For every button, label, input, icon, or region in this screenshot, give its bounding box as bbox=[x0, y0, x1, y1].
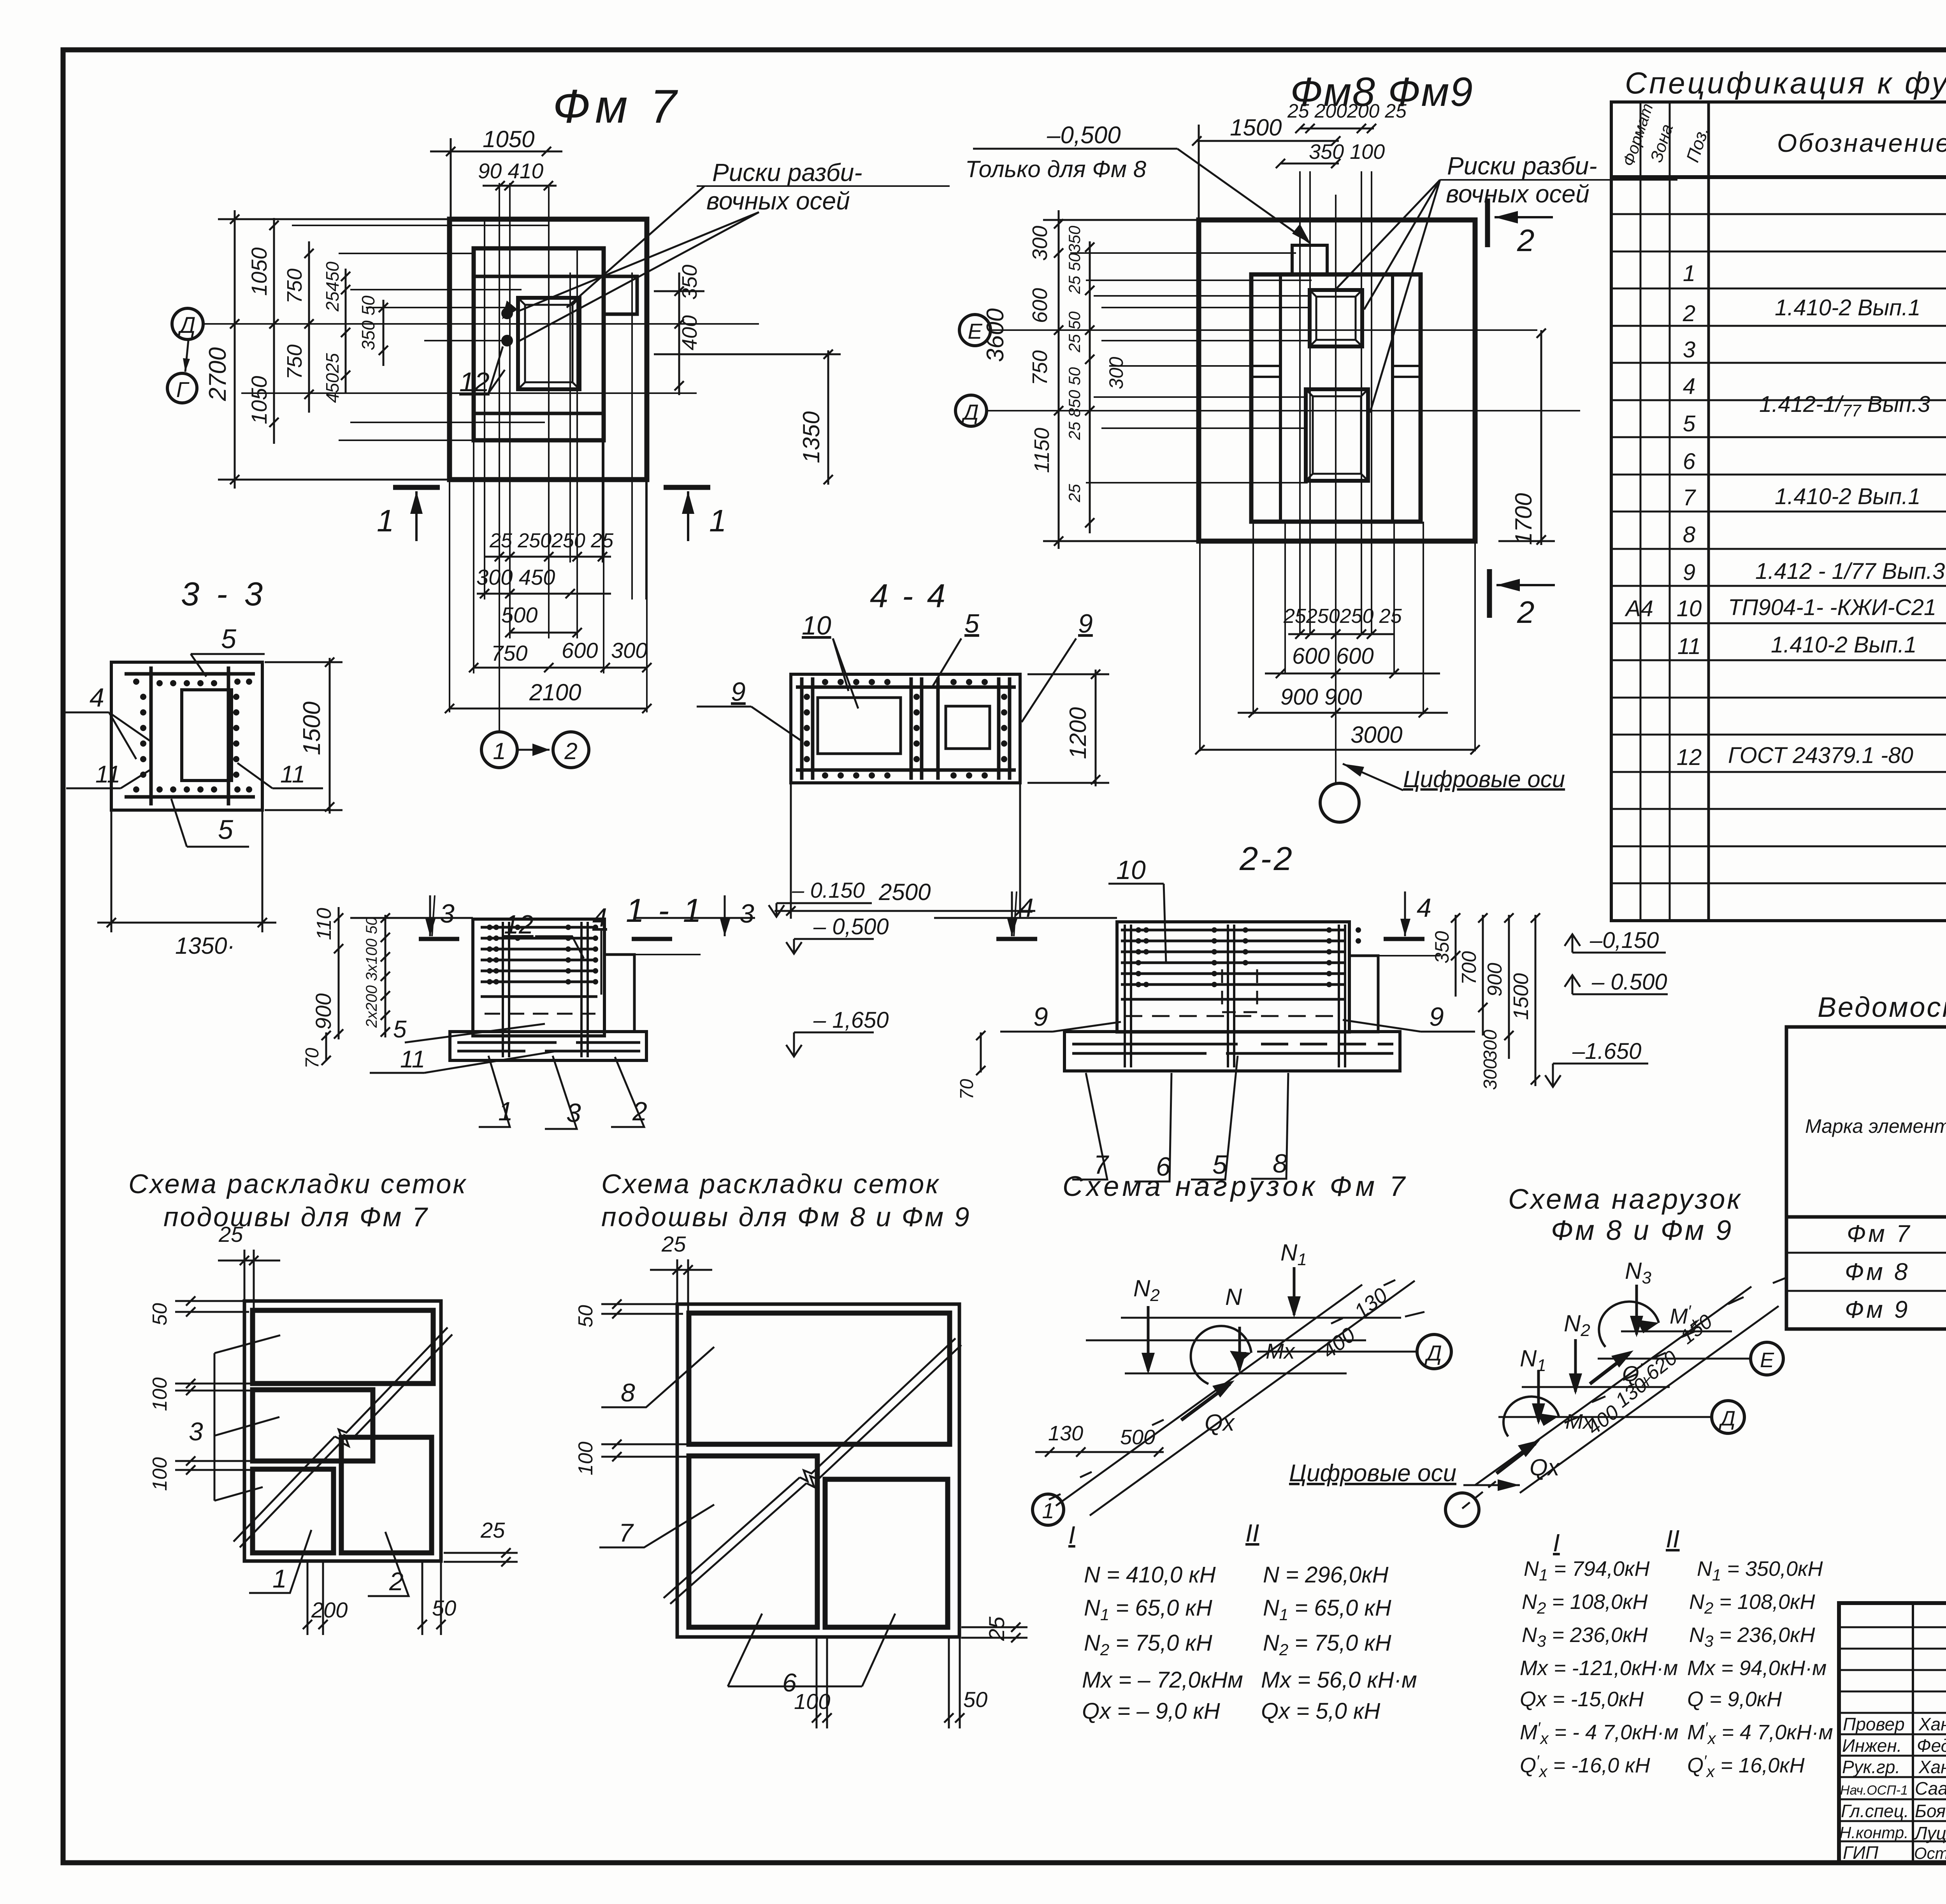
svg-text:Д: Д bbox=[1424, 1341, 1442, 1365]
svg-text:70: 70 bbox=[957, 1079, 977, 1100]
Fm7 axis D line bbox=[202, 323, 759, 325]
svg-text:Д: Д bbox=[1719, 1407, 1735, 1430]
svg-text:Луценко: Луценко bbox=[1914, 1823, 1946, 1843]
svg-text:–0,500: –0,500 bbox=[1047, 122, 1121, 149]
svg-text:Н.контр.: Н.контр. bbox=[1839, 1823, 1909, 1842]
svg-text:11: 11 bbox=[1677, 634, 1701, 659]
svg-text:4: 4 bbox=[1417, 893, 1431, 923]
horizontal girder lines bbox=[1121, 1317, 1401, 1319]
svg-text:4: 4 bbox=[90, 683, 104, 712]
svg-text:12: 12 bbox=[459, 367, 490, 397]
steel table header texts bbox=[1805, 1034, 1946, 1210]
mesh C6 bottom-right bbox=[825, 1479, 948, 1627]
axis circle D bbox=[172, 308, 203, 339]
svg-text:1: 1 bbox=[377, 503, 394, 538]
svg-text:500: 500 bbox=[501, 603, 537, 627]
svg-text:подошвы для Фм 7: подошвы для Фм 7 bbox=[163, 1202, 429, 1232]
svg-text:2: 2 bbox=[389, 1567, 404, 1596]
svg-text:Mх = -121,0кН·м: Mх = -121,0кН·м bbox=[1520, 1656, 1678, 1680]
section 2-2 horizontal mesh rows bbox=[1121, 929, 1346, 932]
svg-text:11: 11 bbox=[95, 761, 120, 788]
svg-text:2: 2 bbox=[1517, 223, 1535, 258]
svg-text:2-2: 2-2 bbox=[1239, 840, 1294, 877]
svg-text:Схема раскладки сеток: Схема раскладки сеток bbox=[128, 1169, 467, 1199]
svg-text:Обозначение: Обозначение bbox=[1777, 128, 1946, 157]
svg-text:300 450: 300 450 bbox=[476, 565, 555, 589]
beam diagonal axis lines bbox=[1056, 1285, 1362, 1506]
section 2-2 right dimension chain bbox=[1451, 913, 1540, 1086]
section 4-4 concrete outline bbox=[791, 674, 1020, 783]
svg-text:3: 3 bbox=[189, 1417, 203, 1446]
axis circle E bbox=[959, 315, 991, 346]
svg-text:Спецификация к фундаментам: Спецификация к фундаментам Фм7- Фм9 bbox=[1625, 66, 1946, 100]
section 3-3 dimension 1500 bbox=[265, 658, 342, 814]
svg-text:25 50: 25 50 bbox=[1065, 311, 1084, 353]
svg-text:Цифровые оси: Цифровые оси bbox=[1403, 766, 1565, 792]
svg-text:350: 350 bbox=[1431, 931, 1453, 963]
axis circle D (Fm89) bbox=[955, 395, 987, 426]
svg-text:2700: 2700 bbox=[204, 347, 231, 401]
svg-text:1: 1 bbox=[1042, 1498, 1054, 1523]
svg-text:Q = 9,0кН: Q = 9,0кН bbox=[1687, 1688, 1782, 1711]
Fm89 axis E line bbox=[991, 329, 1537, 331]
section 3-3 inner opening bbox=[182, 690, 232, 781]
Fm7 anchor box inner bbox=[525, 305, 573, 382]
svg-text:45025: 45025 bbox=[322, 353, 342, 403]
Fm89 bottom anchor box bbox=[1306, 389, 1368, 481]
svg-text:– 1,650: – 1,650 bbox=[813, 1007, 889, 1033]
svg-text:5: 5 bbox=[964, 609, 979, 638]
svg-text:Рук.гр.: Рук.гр. bbox=[1842, 1757, 1900, 1777]
svg-text:700: 700 bbox=[1458, 951, 1481, 985]
Fm89 top notch (step for -0.500) bbox=[1292, 245, 1327, 274]
section 4-4 rebar dots bbox=[804, 679, 1007, 779]
specification body rows bbox=[1625, 185, 1946, 918]
Fm89 outer foundation outline bbox=[1199, 220, 1475, 541]
specification header texts bbox=[1619, 101, 1946, 176]
section 4-4 opening right bbox=[946, 706, 990, 749]
section 2-2 dashed insert box bbox=[1222, 969, 1257, 1012]
svg-text:1: 1 bbox=[272, 1564, 287, 1593]
svg-text:N = 410,0 кН: N = 410,0 кН bbox=[1084, 1562, 1216, 1588]
svg-text:–0,150: –0,150 bbox=[1589, 928, 1659, 953]
mesh layout Fm7 footing outline bbox=[244, 1301, 441, 1561]
axis circle E (load scheme) bbox=[1751, 1342, 1783, 1375]
svg-text:100: 100 bbox=[149, 1377, 171, 1411]
Fm7 lower center line bbox=[241, 392, 697, 394]
svg-text:10: 10 bbox=[1677, 596, 1702, 621]
svg-text:100: 100 bbox=[794, 1689, 830, 1714]
svg-text:300: 300 bbox=[1480, 1059, 1501, 1090]
svg-text:Гл.спец.: Гл.спец. bbox=[1841, 1801, 1909, 1821]
section 2-2 footing mesh bars bbox=[1072, 1043, 1238, 1046]
load scheme Fm7 axis sketch bbox=[1049, 1280, 1424, 1515]
svg-text:1150: 1150 bbox=[1030, 428, 1054, 473]
svg-text:1200: 1200 bbox=[1065, 707, 1091, 759]
svg-text:1.412 - 1/77 Вып.3: 1.412 - 1/77 Вып.3 bbox=[1755, 559, 1945, 584]
svg-text:750: 750 bbox=[1028, 350, 1052, 385]
Fm89 left dimension chain 3600 bbox=[1043, 210, 1201, 549]
mesh C8 top bbox=[689, 1313, 950, 1444]
svg-text:Фм 8 и Фм 9: Фм 8 и Фм 9 bbox=[1551, 1215, 1733, 1246]
Fm89 pedestal internal column strips bbox=[1279, 274, 1282, 522]
axis circle 1 bottom bbox=[481, 732, 517, 768]
svg-text:Риски разби-: Риски разби- bbox=[1447, 152, 1597, 180]
svg-text:7: 7 bbox=[1683, 485, 1697, 510]
svg-text:Qх = -15,0кН: Qх = -15,0кН bbox=[1520, 1688, 1644, 1711]
svg-text:9: 9 bbox=[1078, 609, 1093, 638]
axis circle bottom (Fm89) bbox=[1320, 783, 1359, 822]
Fm89 pedestal outline bbox=[1251, 274, 1421, 522]
svg-text:1: 1 bbox=[1683, 261, 1695, 286]
section 1-1 vertical rebars bbox=[502, 922, 504, 1057]
Fm89 right dimension 1700 bbox=[1498, 329, 1555, 545]
section 3-3 dimension 1350 bbox=[97, 810, 276, 932]
svg-text:25: 25 bbox=[1065, 484, 1084, 503]
svg-text:9: 9 bbox=[1429, 1002, 1444, 1032]
Fm7 top dimension 1050 bbox=[430, 138, 562, 220]
axis circle G bbox=[167, 373, 197, 403]
svg-text:1: 1 bbox=[493, 738, 506, 764]
svg-text:900: 900 bbox=[311, 993, 335, 1030]
axis circle bottom (load scheme Fm89) bbox=[1445, 1493, 1479, 1526]
svg-text:N: N bbox=[1225, 1284, 1242, 1310]
svg-text:3: 3 bbox=[1683, 337, 1695, 362]
svg-text:900 900: 900 900 bbox=[1280, 684, 1362, 710]
svg-text:1350·: 1350· bbox=[175, 933, 235, 959]
Fm7 bottom step line bbox=[474, 412, 604, 415]
svg-text:350 50: 350 50 bbox=[358, 295, 378, 350]
arrow between axis circles bbox=[518, 744, 550, 756]
svg-text:100: 100 bbox=[149, 1457, 171, 1491]
svg-text:Mх = 56,0 кН·м: Mх = 56,0 кН·м bbox=[1261, 1667, 1417, 1693]
svg-text:5: 5 bbox=[393, 1016, 407, 1043]
svg-text:6: 6 bbox=[1683, 449, 1696, 474]
Fm7 outer foundation outline bbox=[450, 219, 647, 480]
svg-text:750: 750 bbox=[491, 641, 527, 665]
svg-text:110: 110 bbox=[313, 908, 335, 940]
svg-text:1050: 1050 bbox=[483, 126, 534, 152]
section 1-1 pedestal bbox=[473, 919, 604, 1036]
svg-text:25 200200 25: 25 200200 25 bbox=[1287, 100, 1407, 122]
Fm7 bottom dimension chains bbox=[445, 552, 652, 713]
svg-text:500: 500 bbox=[1120, 1426, 1155, 1449]
Fm7 anchor box outer bbox=[518, 298, 580, 389]
svg-text:1 - 1: 1 - 1 bbox=[626, 892, 704, 929]
svg-text:– 0.500: – 0.500 bbox=[1591, 969, 1667, 995]
svg-text:Ведомость расхода стали на: Ведомость расхода стали на элемент, кг bbox=[1818, 992, 1946, 1023]
svg-text:300: 300 bbox=[1028, 226, 1052, 261]
section 2-2 footing pad bbox=[1064, 1032, 1400, 1071]
svg-text:3000: 3000 bbox=[1351, 722, 1402, 748]
axis circle D (load scheme) bbox=[1417, 1334, 1451, 1369]
svg-text:25250250 25: 25250250 25 bbox=[1283, 605, 1402, 628]
Fm89 top dimension 1500 bbox=[1192, 124, 1376, 218]
svg-text:Фм 7: Фм 7 bbox=[1847, 1220, 1912, 1247]
svg-text:подошвы для Фм 8 и Фм 9: подошвы для Фм 8 и Фм 9 bbox=[601, 1202, 971, 1232]
svg-text:Г: Г bbox=[176, 377, 190, 402]
svg-text:Риски разби-: Риски разби- bbox=[712, 158, 862, 186]
svg-text:7: 7 bbox=[619, 1518, 634, 1547]
svg-text:25: 25 bbox=[480, 1518, 505, 1542]
svg-text:9: 9 bbox=[731, 677, 746, 707]
svg-text:750: 750 bbox=[283, 269, 306, 304]
svg-text:– 0.150: – 0.150 bbox=[792, 878, 865, 902]
svg-text:А4: А4 bbox=[1625, 596, 1653, 621]
svg-text:Только для Фм 8: Только для Фм 8 bbox=[965, 156, 1147, 182]
svg-text:1.410-2 Вып.1: 1.410-2 Вып.1 bbox=[1775, 295, 1920, 320]
svg-text:1050: 1050 bbox=[247, 247, 271, 296]
svg-text:8: 8 bbox=[1683, 522, 1695, 547]
svg-text:25 50350: 25 50350 bbox=[1065, 225, 1084, 294]
svg-text:300: 300 bbox=[1480, 1030, 1501, 1061]
Fm7 right dimension 350 400 bbox=[654, 273, 841, 485]
svg-text:Фм 9: Фм 9 bbox=[1845, 1296, 1910, 1323]
axis circle 2 bottom bbox=[553, 732, 589, 768]
svg-text:2500: 2500 bbox=[878, 879, 931, 905]
svg-text:2: 2 bbox=[1517, 595, 1535, 629]
axis circle D (load scheme Fm89) bbox=[1712, 1401, 1744, 1433]
section 3-3 mesh bars horizontal bbox=[125, 672, 255, 676]
section 1-1 horizontal mesh rows bbox=[481, 926, 597, 929]
svg-text:вочных осей: вочных осей bbox=[706, 187, 850, 215]
svg-text:5: 5 bbox=[221, 624, 237, 654]
section 1-1 left dimension chain bbox=[321, 907, 390, 1065]
Fm7 projection lines horizontal bbox=[292, 225, 549, 226]
svg-text:Mх: Mх bbox=[1266, 1339, 1296, 1363]
svg-text:2: 2 bbox=[564, 738, 577, 764]
section mark 1 left bbox=[393, 487, 440, 541]
arrow from D to G bbox=[183, 340, 190, 372]
svg-text:Инжен.: Инжен. bbox=[1842, 1735, 1902, 1756]
mesh C3 middle bbox=[253, 1390, 373, 1461]
steel consumption table grid bbox=[1786, 1027, 1946, 1329]
svg-text:Схема нагрузок: Схема нагрузок bbox=[1508, 1184, 1742, 1215]
svg-text:2: 2 bbox=[1683, 301, 1695, 326]
axis circle 1 (load scheme) bbox=[1033, 1494, 1064, 1525]
svg-text:Д: Д bbox=[177, 313, 196, 338]
svg-text:50: 50 bbox=[149, 1303, 171, 1326]
svg-text:Марка элемента: Марка элемента bbox=[1805, 1115, 1946, 1137]
svg-text:600: 600 bbox=[562, 638, 598, 663]
svg-text:300: 300 bbox=[611, 638, 647, 663]
Fm89 bottom dimension chains bbox=[1195, 629, 1480, 754]
section 4-4 mesh bars horizontal bbox=[796, 686, 1016, 689]
svg-text:130: 130 bbox=[1048, 1422, 1083, 1445]
svg-text:Схема раскладки сеток: Схема раскладки сеток bbox=[601, 1169, 940, 1199]
svg-text:3: 3 bbox=[739, 899, 754, 928]
section 4-4 dimension 1200 bbox=[1027, 670, 1109, 786]
diagonal break line bbox=[234, 1436, 335, 1542]
svg-text:9: 9 bbox=[1033, 1002, 1048, 1032]
section 3-3 rebar dots bbox=[133, 679, 252, 793]
svg-text:750: 750 bbox=[283, 345, 306, 380]
svg-text:10: 10 bbox=[802, 611, 831, 640]
svg-text:90 410: 90 410 bbox=[478, 159, 544, 183]
section 2-2 mesh dots bbox=[1136, 927, 1361, 987]
Fm7 projection lines vertical bbox=[484, 219, 485, 600]
svg-text:10: 10 bbox=[1116, 855, 1146, 885]
svg-text:Qх = 5,0 кН: Qх = 5,0 кН bbox=[1261, 1698, 1380, 1724]
Fm7 left dimension chain 2700 bbox=[218, 210, 451, 489]
svg-text:Qх = – 9,0 кН: Qх = – 9,0 кН bbox=[1082, 1698, 1220, 1724]
section 4-4 opening left bbox=[818, 698, 901, 754]
load scheme Fm89 axis sketch bbox=[1462, 1278, 1786, 1508]
svg-text:Е: Е bbox=[1760, 1348, 1774, 1372]
svg-text:II: II bbox=[1666, 1525, 1680, 1553]
svg-text:4 - 4: 4 - 4 bbox=[870, 578, 948, 615]
svg-text:Саакьянц: Саакьянц bbox=[1915, 1778, 1946, 1799]
section mark 2 bottom bbox=[1489, 569, 1555, 618]
svg-text:Mх = – 72,0кНм: Mх = – 72,0кНм bbox=[1082, 1667, 1243, 1693]
Fm7 pedestal outline bbox=[474, 248, 604, 440]
section 4-4 mesh bars vertical bbox=[800, 677, 804, 780]
section 4-4 dimension 2500 bbox=[775, 783, 1035, 919]
svg-text:3: 3 bbox=[440, 899, 455, 928]
svg-text:2100: 2100 bbox=[529, 679, 581, 705]
section 2-2 right step bbox=[1349, 956, 1378, 1032]
mesh C1 top bbox=[253, 1310, 433, 1384]
svg-text:350 100: 350 100 bbox=[1309, 140, 1385, 164]
svg-text:I: I bbox=[1068, 1521, 1075, 1549]
svg-text:I: I bbox=[1553, 1529, 1560, 1557]
svg-text:600 600: 600 600 bbox=[1292, 643, 1374, 669]
svg-text:25 250250 25: 25 250250 25 bbox=[489, 529, 614, 552]
svg-text:1: 1 bbox=[709, 503, 727, 538]
svg-text:1500: 1500 bbox=[1230, 114, 1282, 141]
svg-text:300: 300 bbox=[1105, 357, 1127, 389]
svg-text:Бояченко: Бояченко bbox=[1915, 1801, 1946, 1821]
Fm89 top anchor box bbox=[1310, 290, 1362, 346]
svg-text:ГИП: ГИП bbox=[1843, 1842, 1879, 1863]
svg-text:350: 350 bbox=[678, 265, 701, 300]
svg-text:50: 50 bbox=[574, 1305, 597, 1327]
svg-text:1050: 1050 bbox=[247, 376, 271, 424]
Fm7 vertical center line bbox=[548, 187, 550, 638]
svg-text:1500: 1500 bbox=[1509, 973, 1533, 1020]
section mark 1 right bbox=[664, 487, 710, 541]
svg-text:100: 100 bbox=[574, 1442, 597, 1475]
svg-text:Е: Е bbox=[968, 319, 982, 343]
svg-text:Схема нагрузок Фм 7: Схема нагрузок Фм 7 bbox=[1063, 1171, 1409, 1202]
section 2-2 pedestal bbox=[1117, 922, 1349, 1032]
mesh C3a bottom-left bbox=[253, 1469, 334, 1553]
mesh C7 bottom-left bbox=[689, 1456, 817, 1627]
Fm7 top step line bbox=[474, 275, 604, 278]
title block grid bbox=[1839, 1603, 1946, 1863]
svg-text:9: 9 bbox=[1683, 560, 1695, 585]
svg-text:1500: 1500 bbox=[299, 701, 325, 755]
Fm7 anchor bolts bbox=[501, 308, 513, 319]
svg-text:400: 400 bbox=[678, 315, 701, 350]
mesh C2 right bbox=[341, 1437, 432, 1553]
svg-text:Фм 7: Фм 7 bbox=[553, 80, 681, 133]
svg-text:3 - 3: 3 - 3 bbox=[181, 576, 267, 613]
svg-text:Фм 8: Фм 8 bbox=[1845, 1259, 1910, 1285]
svg-text:70: 70 bbox=[302, 1048, 323, 1069]
svg-text:900: 900 bbox=[1484, 963, 1506, 997]
svg-text:8: 8 bbox=[621, 1378, 635, 1407]
svg-text:Ханин: Ханин bbox=[1918, 1714, 1946, 1734]
section 1-1 footing pad bbox=[450, 1032, 646, 1060]
svg-text:вочных осей: вочных осей bbox=[1446, 180, 1589, 208]
svg-text:ТП904-1- -КЖИ-С21: ТП904-1- -КЖИ-С21 bbox=[1728, 595, 1936, 620]
svg-text:25 850 50: 25 850 50 bbox=[1065, 367, 1084, 440]
Fm7 right notch bbox=[604, 276, 637, 314]
specification table grid bbox=[1611, 102, 1946, 921]
signature rows bbox=[1839, 1714, 1946, 1863]
svg-text:Д: Д bbox=[961, 400, 978, 424]
Fm89 vertical center line bbox=[1335, 195, 1337, 782]
diagonal dim ticks lower bbox=[1049, 1280, 1424, 1500]
svg-text:Федотова: Федотова bbox=[1917, 1735, 1946, 1756]
svg-text:5: 5 bbox=[218, 814, 234, 845]
svg-text:1.410-2 Вып.1: 1.410-2 Вып.1 bbox=[1771, 632, 1916, 658]
svg-text:25: 25 bbox=[218, 1222, 243, 1246]
svg-text:II: II bbox=[1245, 1519, 1259, 1547]
svg-text:1700: 1700 bbox=[1510, 493, 1537, 545]
steel table data rows bbox=[1845, 1220, 1946, 1326]
svg-text:4: 4 bbox=[1683, 374, 1695, 399]
svg-text:50: 50 bbox=[963, 1687, 987, 1712]
svg-text:25450: 25450 bbox=[322, 262, 342, 312]
svg-text:25: 25 bbox=[661, 1232, 686, 1256]
svg-text:N = 296,0кН: N = 296,0кН bbox=[1263, 1562, 1389, 1588]
section 3-3 mesh bars vertical bbox=[149, 666, 153, 805]
svg-text:– 0,500: – 0,500 bbox=[813, 914, 889, 939]
section mark 2 top bbox=[1488, 199, 1553, 247]
svg-text:600: 600 bbox=[1028, 288, 1052, 323]
Fm89 projection horizontals bbox=[1070, 252, 1296, 254]
svg-text:Нач.ОСП-1: Нач.ОСП-1 bbox=[1840, 1783, 1908, 1798]
svg-text:2х200 3х100 50: 2х200 3х100 50 bbox=[363, 917, 380, 1028]
Fm89 axis D line bbox=[987, 410, 1580, 411]
svg-text:Qх: Qх bbox=[1205, 1410, 1235, 1436]
section 1-1 right step bbox=[604, 955, 634, 1032]
svg-text:1350: 1350 bbox=[798, 411, 824, 463]
Fm89 projection verticals bbox=[1299, 171, 1301, 635]
section 1-1 footing mesh bars bbox=[457, 1041, 557, 1044]
svg-text:Провер: Провер bbox=[1843, 1714, 1905, 1734]
svg-text:200: 200 bbox=[311, 1598, 348, 1622]
svg-text:ГОСТ 24379.1 -80: ГОСТ 24379.1 -80 bbox=[1728, 743, 1913, 768]
section 1-1 mesh dots bbox=[487, 925, 598, 985]
svg-text:Осташевский: Осташевский bbox=[1914, 1844, 1946, 1862]
svg-text:50: 50 bbox=[432, 1596, 456, 1620]
svg-text:12: 12 bbox=[1677, 745, 1702, 770]
svg-text:11: 11 bbox=[280, 761, 305, 788]
svg-text:Qх: Qх bbox=[1530, 1454, 1560, 1480]
Fm7 top dimension 90 410 bbox=[483, 185, 557, 187]
svg-text:5: 5 bbox=[1683, 411, 1696, 436]
svg-text:–1.650: –1.650 bbox=[1572, 1039, 1641, 1064]
svg-text:Mх = 94,0кН·м: Mх = 94,0кН·м bbox=[1687, 1656, 1827, 1680]
diagonal break line Fm89 bbox=[664, 1477, 800, 1598]
mesh layout Fm89 footing outline bbox=[677, 1304, 959, 1637]
svg-text:1.410-2 Вып.1: 1.410-2 Вып.1 bbox=[1775, 484, 1920, 509]
svg-text:Цифровые оси: Цифровые оси bbox=[1289, 1460, 1456, 1487]
section 3-3 concrete outline bbox=[111, 662, 262, 810]
svg-text:11: 11 bbox=[400, 1046, 425, 1073]
svg-text:3600: 3600 bbox=[982, 308, 1009, 362]
svg-text:Ханин: Ханин bbox=[1918, 1757, 1946, 1777]
section 2-2 vertical rebars bbox=[1124, 925, 1126, 1067]
